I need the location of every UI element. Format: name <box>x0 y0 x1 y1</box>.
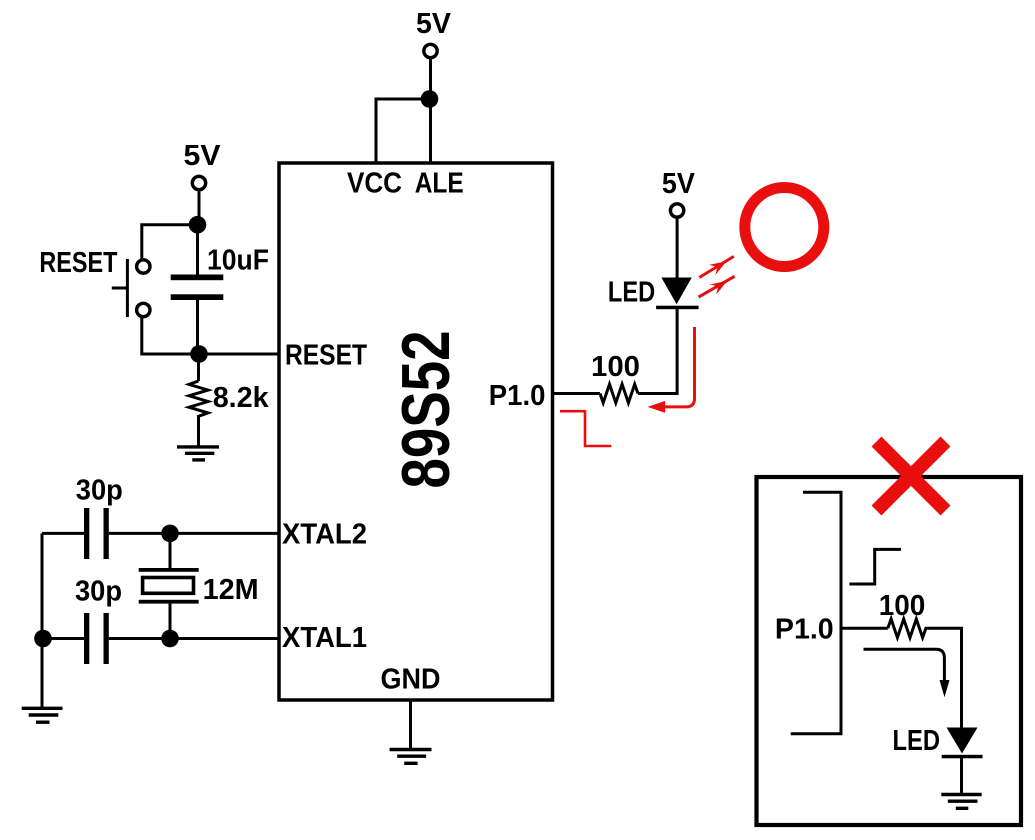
wire cap C1 to node <box>196 300 199 354</box>
wire resistor R1 to ground <box>197 422 200 447</box>
crystal Y1 body <box>143 578 194 594</box>
chip bracket <box>791 492 841 733</box>
ground chip <box>390 750 432 764</box>
black flow arrow <box>864 649 945 681</box>
capacitor C3 plate right <box>104 613 109 664</box>
svg-text:100: 100 <box>879 590 926 622</box>
switch S1 terminal top <box>137 260 150 273</box>
svg-text:GND: GND <box>381 664 441 696</box>
ground reset <box>177 447 219 460</box>
svg-text:P1.0: P1.0 <box>489 380 546 412</box>
svg-text:5V: 5V <box>662 168 696 200</box>
wire left to cap C2 <box>42 532 84 535</box>
LED D1 cathode bar <box>656 306 699 310</box>
capacitor C3 plate left <box>84 613 89 664</box>
red flow arrowhead <box>648 401 666 413</box>
wire node to resistor R1 <box>197 354 200 381</box>
wire switch bottom <box>142 317 278 355</box>
svg-text:89S52: 89S52 <box>388 331 464 489</box>
svg-text:30p: 30p <box>75 576 122 608</box>
black flow arrowhead <box>940 680 950 697</box>
ground box <box>941 795 981 809</box>
LED D2 cathode bar <box>942 755 983 759</box>
red emission arrow 1 <box>699 256 734 277</box>
wire left vertical <box>41 533 44 638</box>
IC U1 89S52 <box>279 163 553 700</box>
red emission arrow 2 <box>699 276 735 297</box>
LED D1 triangle <box>661 278 691 305</box>
5V terminal top <box>424 44 437 57</box>
red X mark <box>877 442 946 511</box>
red falling edge step <box>560 411 611 446</box>
wrong-method box <box>757 477 1022 825</box>
junction left bottom <box>34 630 52 648</box>
wire branch to VCC <box>376 99 430 162</box>
svg-text:30p: 30p <box>76 475 123 507</box>
capacitor C1 plate bottom <box>171 294 224 300</box>
wire to switch top <box>142 225 198 260</box>
svg-text:LED: LED <box>608 277 655 309</box>
svg-text:5V: 5V <box>416 8 452 40</box>
wire junction to cap C1 <box>196 225 199 275</box>
crystal Y1 plate top <box>139 568 199 572</box>
junction XTAL2 <box>161 525 179 543</box>
switch S1 terminal bottom <box>137 303 150 316</box>
wire LED cathode down <box>638 309 677 394</box>
svg-text:P1.0: P1.0 <box>775 614 834 646</box>
svg-text:RESET: RESET <box>285 340 367 372</box>
svg-text:12M: 12M <box>203 574 259 606</box>
wire 5V to LED <box>676 217 679 279</box>
LED D2 triangle <box>947 728 978 754</box>
black rising edge step <box>849 549 901 584</box>
red circle OK mark <box>745 188 824 267</box>
junction top <box>421 90 439 108</box>
wire chip GND stem <box>409 700 412 750</box>
svg-text:5V: 5V <box>184 140 222 172</box>
junction reset top <box>189 216 207 234</box>
svg-text:VCC: VCC <box>347 168 402 200</box>
wire 5V to ALE <box>429 58 432 162</box>
capacitor C2 plate left <box>84 508 89 559</box>
junction reset bottom <box>190 345 208 363</box>
svg-text:RESET: RESET <box>39 247 117 279</box>
5V terminal LED <box>670 204 683 217</box>
capacitor C2 plate right <box>104 508 109 559</box>
svg-text:100: 100 <box>591 351 640 383</box>
wire left to cap C3 <box>42 637 84 640</box>
junction XTAL1 <box>161 630 179 648</box>
wire cap C3 to XTAL1 <box>109 637 278 640</box>
ground left <box>22 708 63 722</box>
resistor R1 8.2k <box>189 381 208 422</box>
svg-text:8.2k: 8.2k <box>213 382 270 414</box>
svg-text:XTAL2: XTAL2 <box>282 519 367 551</box>
wire cap C2 to XTAL2 <box>109 532 278 535</box>
wire resistor R2 to P1.0 <box>554 392 600 395</box>
wire LED D2 to ground <box>960 758 963 795</box>
5V terminal reset <box>192 176 205 189</box>
wire to ground left <box>41 639 44 709</box>
svg-text:XTAL1: XTAL1 <box>282 622 367 654</box>
wire crystal bottom stem <box>169 604 172 639</box>
switch S1 actuator stub <box>112 287 128 290</box>
wire 5V reset down <box>198 190 201 225</box>
wire P1.0 to resistor R3 <box>841 627 888 630</box>
switch S1 actuator <box>126 259 129 317</box>
resistor R2 100 <box>600 384 638 403</box>
wire resistor R3 right and down <box>927 628 961 727</box>
crystal Y1 plate bottom <box>139 600 199 604</box>
capacitor C1 plate top <box>171 275 224 281</box>
resistor R3 100 <box>888 619 928 638</box>
red flow arrow <box>663 327 695 407</box>
svg-text:ALE: ALE <box>415 168 464 200</box>
svg-text:LED: LED <box>893 725 941 757</box>
wire crystal top stem <box>169 533 172 568</box>
svg-text:10uF: 10uF <box>207 245 269 277</box>
